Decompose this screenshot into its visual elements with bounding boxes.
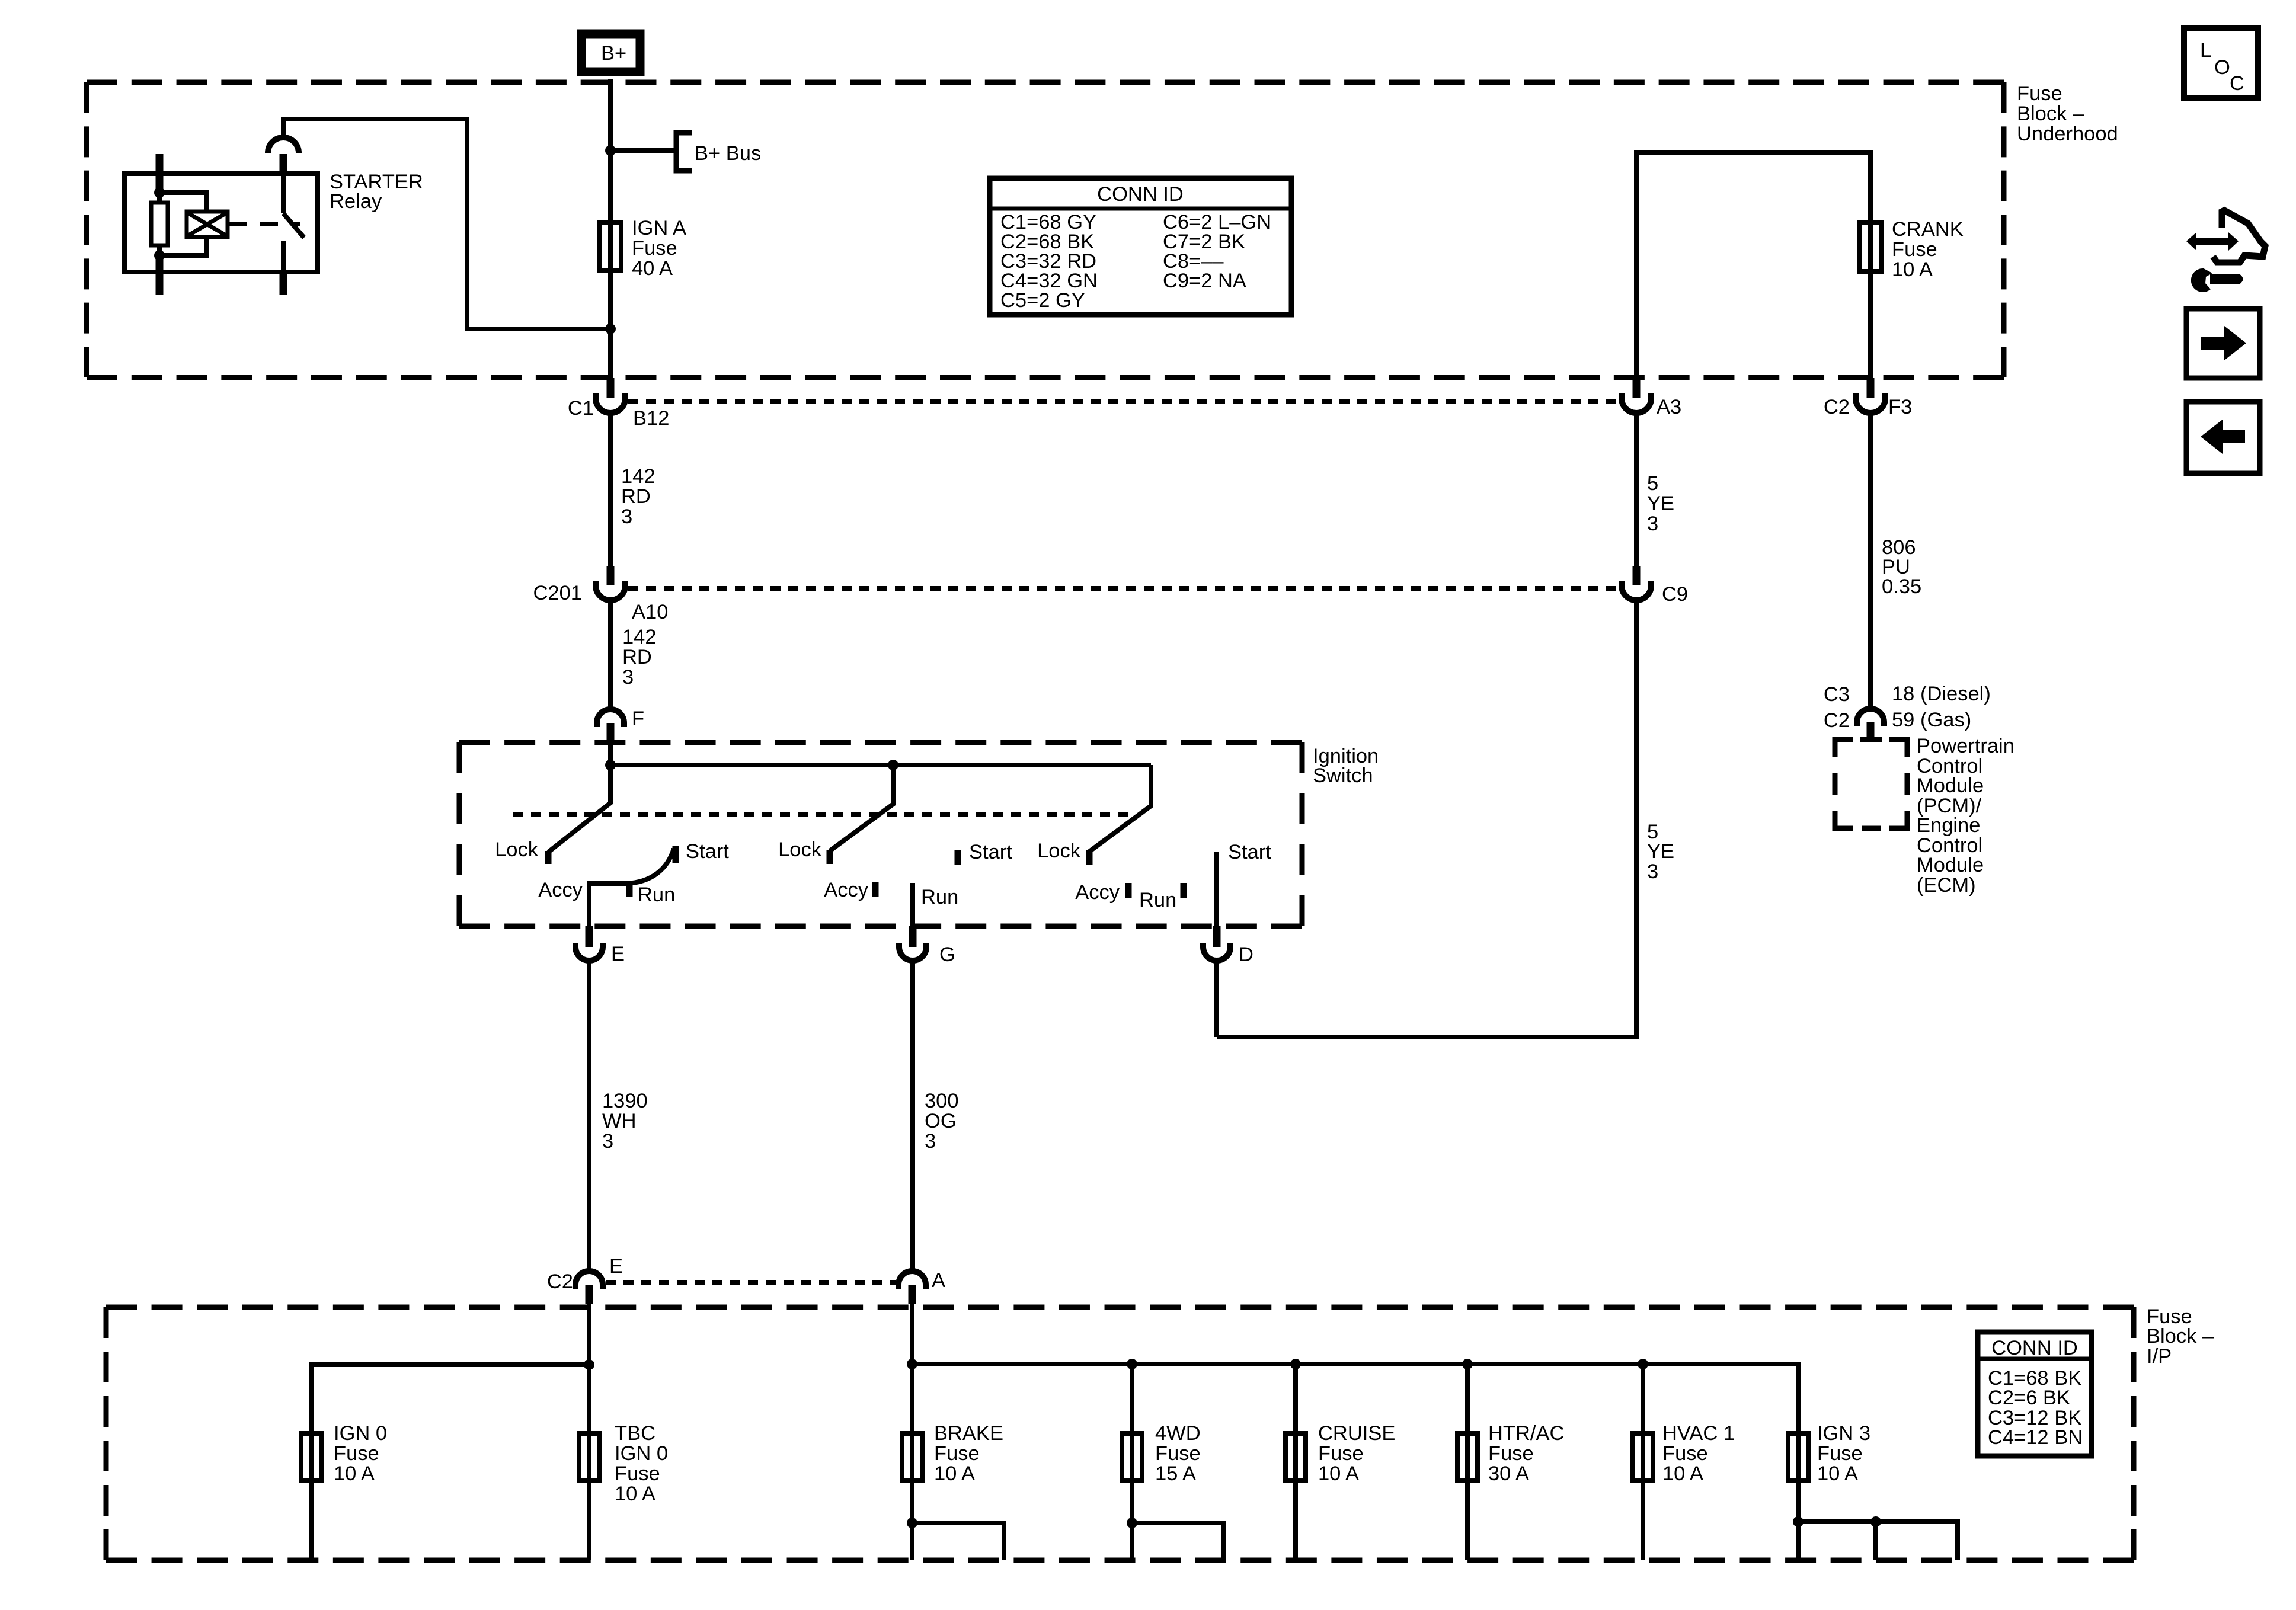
wire 4WD fuse out bbox=[1130, 1483, 1134, 1560]
svg-text:Run: Run bbox=[1139, 889, 1176, 911]
wire HVAC 1 fuse out bbox=[1641, 1483, 1645, 1560]
label CRANK Fuse 10 A bbox=[1892, 218, 1964, 281]
svg-text:CONN ID: CONN ID bbox=[1991, 1337, 2078, 1359]
svg-text:C2: C2 bbox=[1824, 709, 1850, 732]
wire 5 YE A3 to C9 bbox=[1634, 413, 1639, 566]
contact Lock 1 bbox=[545, 851, 552, 864]
contact Start 2 bbox=[955, 850, 961, 865]
svg-text:10 A: 10 A bbox=[934, 1462, 975, 1485]
svg-text:Fuse: Fuse bbox=[334, 1442, 379, 1465]
dotted gang link bbox=[513, 812, 1131, 817]
wire IGN 3 fuse out bbox=[1796, 1483, 1801, 1560]
node A distribution bbox=[907, 1359, 917, 1369]
wire CRUISE drop bbox=[1293, 1364, 1298, 1431]
B+ Bus bracket bbox=[676, 133, 692, 171]
svg-text:4WD: 4WD bbox=[1155, 1422, 1201, 1445]
label 300 OG 3 bbox=[925, 1090, 959, 1153]
svg-text:Relay: Relay bbox=[330, 190, 382, 213]
fuse BRAKE 10A bbox=[902, 1433, 922, 1480]
node bus 4WD bbox=[1127, 1359, 1137, 1369]
connector C2 pin E fuse block bbox=[575, 1271, 603, 1304]
wire IGN 0 fuse out bbox=[309, 1483, 314, 1560]
forward arrow icon bbox=[2186, 309, 2260, 378]
node relay feed junction bbox=[605, 324, 616, 334]
svg-text:C4=12 BN: C4=12 BN bbox=[1988, 1426, 2083, 1449]
contact Accy 3 bbox=[1125, 883, 1132, 898]
svg-text:Module: Module bbox=[1917, 774, 1984, 797]
relay switch pin top bbox=[280, 154, 287, 174]
svg-text:Powertrain: Powertrain bbox=[1917, 735, 2014, 757]
label 142 RD 3 lower bbox=[622, 626, 657, 689]
wire relay switch to main feed bbox=[283, 119, 610, 329]
relay switch contact lower bbox=[281, 241, 286, 272]
label IGN 3 Fuse 10 A bbox=[1817, 1422, 1870, 1485]
svg-text:Fuse: Fuse bbox=[1488, 1442, 1534, 1465]
svg-text:OG: OG bbox=[925, 1110, 957, 1132]
svg-text:L: L bbox=[2200, 39, 2211, 62]
svg-text:F3: F3 bbox=[1888, 396, 1912, 418]
svg-text:HTR/AC: HTR/AC bbox=[1488, 1422, 1564, 1445]
svg-text:C1: C1 bbox=[568, 397, 594, 420]
wire BRAKE fuse out bbox=[910, 1483, 914, 1560]
svg-text:Fuse: Fuse bbox=[2017, 82, 2062, 105]
label 806 PU 0.35 bbox=[1882, 536, 1921, 598]
fuse block IP dashed enclosure bbox=[106, 1305, 2134, 1310]
contact Run 1 bbox=[626, 884, 633, 897]
svg-text:Fuse: Fuse bbox=[1662, 1442, 1708, 1465]
svg-text:3: 3 bbox=[1647, 860, 1658, 883]
label IGN A Fuse 40 A bbox=[632, 217, 686, 280]
svg-text:3: 3 bbox=[621, 505, 632, 528]
svg-text:Start: Start bbox=[1228, 841, 1271, 863]
label Powertrain Control Module (PCM)/ Engine Control Module (ECM) bbox=[1917, 735, 2014, 897]
svg-text:YE: YE bbox=[1647, 492, 1674, 515]
wire 4WD stub bbox=[1132, 1523, 1223, 1560]
label 142 RD 3 upper bbox=[621, 465, 655, 528]
svg-text:CONN ID: CONN ID bbox=[1097, 183, 1184, 206]
label Ignition Switch bbox=[1313, 745, 1379, 787]
connector E ignition switch bbox=[575, 926, 603, 961]
wire to IGN 0 fuse bbox=[311, 1365, 589, 1431]
node 4WD stub bbox=[1127, 1518, 1137, 1528]
wire A column into fuse block bbox=[910, 1304, 914, 1431]
node switch pole 1 bbox=[605, 760, 616, 770]
wire B+ down to IGN A fuse bbox=[608, 79, 613, 220]
connector C9 bbox=[1622, 566, 1651, 600]
label IGN 0 Fuse 10 A bbox=[334, 1422, 387, 1485]
wire HVAC 1 drop bbox=[1641, 1364, 1645, 1431]
fuse HTR/AC 30A bbox=[1457, 1433, 1478, 1480]
node bus HTR/AC bbox=[1462, 1359, 1473, 1369]
svg-text:(ECM): (ECM) bbox=[1917, 874, 1976, 897]
wire 5 YE C9 down to D leg bbox=[1217, 600, 1636, 1037]
svg-text:Start: Start bbox=[969, 841, 1012, 863]
service vehicle icon bbox=[2186, 210, 2265, 292]
svg-text:C2: C2 bbox=[547, 1270, 573, 1293]
wire 1390 WH E to C2 bbox=[587, 961, 591, 1272]
svg-text:Fuse: Fuse bbox=[934, 1442, 980, 1465]
wire HTR/AC drop bbox=[1465, 1364, 1470, 1431]
svg-text:B+: B+ bbox=[601, 42, 626, 65]
wire 142 RD C1 to C201 bbox=[608, 413, 613, 566]
svg-text:TBC: TBC bbox=[615, 1422, 655, 1445]
connector C3 C2 PCM pins 18/59 bbox=[1857, 709, 1884, 742]
connector F ignition switch bbox=[597, 709, 624, 742]
svg-text:B12: B12 bbox=[633, 407, 669, 430]
wire Run leg switch 2 bbox=[910, 883, 915, 926]
label 5 YE 3 upper bbox=[1647, 472, 1674, 535]
svg-text:Start: Start bbox=[686, 840, 729, 863]
svg-text:HVAC 1: HVAC 1 bbox=[1662, 1422, 1735, 1445]
svg-text:RD: RD bbox=[622, 646, 652, 668]
svg-text:10 A: 10 A bbox=[615, 1483, 655, 1505]
wire D leg to corner bbox=[1214, 961, 1219, 1037]
svg-text:WH: WH bbox=[602, 1110, 636, 1132]
label STARTER Relay bbox=[330, 171, 423, 213]
svg-text:30 A: 30 A bbox=[1488, 1462, 1529, 1485]
svg-text:Module: Module bbox=[1917, 854, 1984, 876]
node coil bottom bbox=[154, 250, 165, 261]
svg-text:C2: C2 bbox=[1824, 396, 1850, 418]
label 4WD Fuse 15 A bbox=[1155, 1422, 1201, 1485]
relay switch contact upper bbox=[281, 174, 286, 213]
svg-text:Fuse: Fuse bbox=[1155, 1442, 1201, 1465]
relay coil pin top bbox=[156, 154, 164, 196]
blade curve to Start 1 bbox=[626, 849, 674, 884]
svg-text:Accy: Accy bbox=[1075, 881, 1120, 904]
connector C1 pin B12 bbox=[596, 378, 625, 413]
node B+ bus tap bbox=[605, 145, 616, 156]
wire through IGN A fuse bbox=[608, 220, 613, 378]
svg-text:40 A: 40 A bbox=[632, 257, 673, 280]
svg-text:RD: RD bbox=[621, 485, 651, 508]
LOC legend icon bbox=[2184, 28, 2258, 98]
node bus CRUISE bbox=[1290, 1359, 1301, 1369]
wire E column into fuse block bbox=[587, 1304, 591, 1431]
svg-text:1390: 1390 bbox=[602, 1090, 648, 1112]
resistor relay coil bbox=[157, 193, 162, 203]
svg-text:IGN 0: IGN 0 bbox=[334, 1422, 387, 1445]
svg-text:G: G bbox=[939, 943, 955, 966]
fuse 4WD 15A bbox=[1122, 1433, 1142, 1480]
wire 142 RD C201 to F bbox=[608, 600, 613, 710]
svg-text:Lock: Lock bbox=[495, 838, 539, 861]
PCM dashed box bbox=[1835, 740, 1907, 828]
svg-text:Fuse: Fuse bbox=[1892, 238, 1937, 261]
node bus HVAC 1 bbox=[1638, 1359, 1648, 1369]
svg-text:10 A: 10 A bbox=[334, 1462, 375, 1485]
node IGN 3 stub bbox=[1793, 1516, 1803, 1527]
svg-text:Engine: Engine bbox=[1917, 814, 1980, 837]
relay terminal arc bbox=[268, 137, 299, 153]
svg-text:Accy: Accy bbox=[824, 879, 869, 901]
svg-text:10 A: 10 A bbox=[1318, 1462, 1359, 1485]
svg-text:142: 142 bbox=[622, 626, 657, 648]
svg-text:Lock: Lock bbox=[778, 838, 822, 861]
contact Run 3 bbox=[1181, 883, 1187, 898]
wire Accy leg switch 1 bbox=[589, 884, 626, 926]
fuse block underhood dashed enclosure bbox=[87, 80, 2004, 85]
svg-text:5: 5 bbox=[1647, 472, 1658, 495]
wire ignition bus bbox=[912, 1364, 1798, 1431]
svg-text:Run: Run bbox=[921, 886, 958, 908]
svg-text:Block –: Block – bbox=[2147, 1325, 2214, 1347]
fuse CRUISE 10A bbox=[1285, 1433, 1306, 1480]
svg-text:C201: C201 bbox=[533, 582, 582, 604]
svg-text:YE: YE bbox=[1647, 840, 1674, 863]
contact Accy 2 bbox=[872, 882, 879, 897]
svg-text:BRAKE: BRAKE bbox=[934, 1422, 1003, 1445]
svg-text:O: O bbox=[2214, 56, 2230, 79]
wire Start leg switch 3 bbox=[1214, 852, 1219, 926]
switch pole 1 blade bbox=[548, 765, 610, 852]
svg-text:Accy: Accy bbox=[538, 879, 583, 901]
svg-text:C9=2 NA: C9=2 NA bbox=[1163, 270, 1246, 292]
wire ignition feed bus bbox=[610, 742, 1151, 765]
svg-text:IGN A: IGN A bbox=[632, 217, 686, 239]
svg-text:A: A bbox=[932, 1269, 945, 1292]
fuse IGN 0 10A bbox=[301, 1433, 321, 1480]
svg-text:F: F bbox=[632, 708, 644, 730]
fuse TBC IGN 0 10A bbox=[579, 1433, 599, 1480]
wire IGN 3 stub bbox=[1798, 1522, 1958, 1560]
wire 4WD drop bbox=[1130, 1364, 1134, 1431]
svg-text:C5=2 GY: C5=2 GY bbox=[1000, 289, 1085, 312]
wire CRANK fuse to C2 F3 bbox=[1868, 274, 1873, 378]
label Fuse Block - I/P bbox=[2147, 1305, 2214, 1368]
node coil top bbox=[154, 187, 165, 198]
svg-text:C2=6 BK: C2=6 BK bbox=[1988, 1387, 2070, 1409]
connector C2 F3 bbox=[1856, 378, 1885, 413]
switch pole 3 blade bbox=[1089, 765, 1151, 852]
dotted harness line C201 to C9 bbox=[628, 586, 1620, 591]
dashed mechanical link diode to switch bbox=[229, 222, 300, 226]
svg-text:B+ Bus: B+ Bus bbox=[695, 142, 761, 165]
node IGN 3 stub mid bbox=[1870, 1516, 1881, 1527]
svg-text:D: D bbox=[1239, 943, 1253, 966]
label 5 YE 3 lower bbox=[1647, 821, 1674, 883]
contact Lock 3 bbox=[1086, 850, 1093, 865]
svg-text:Underhood: Underhood bbox=[2017, 123, 2118, 145]
wire IGN 3 stub mid drop bbox=[1873, 1522, 1878, 1560]
svg-text:C9: C9 bbox=[1662, 583, 1688, 606]
svg-text:10 A: 10 A bbox=[1892, 258, 1933, 281]
label HVAC 1 Fuse 10 A bbox=[1662, 1422, 1735, 1485]
contact Lock 2 bbox=[827, 850, 833, 864]
svg-text:CRANK: CRANK bbox=[1892, 218, 1964, 241]
wire 806 PU to PCM bbox=[1868, 413, 1873, 709]
svg-text:Fuse: Fuse bbox=[632, 237, 677, 260]
back arrow icon bbox=[2186, 402, 2260, 473]
fuse HVAC 1 10A bbox=[1633, 1433, 1653, 1480]
svg-text:CRUISE: CRUISE bbox=[1318, 1422, 1395, 1445]
connector G ignition switch bbox=[899, 926, 926, 961]
svg-text:3: 3 bbox=[602, 1130, 613, 1153]
svg-text:Lock: Lock bbox=[1037, 840, 1081, 862]
connector A fuse block bbox=[898, 1271, 926, 1304]
wire A3 riser and crank feed bbox=[1636, 152, 1870, 378]
svg-text:A10: A10 bbox=[632, 601, 668, 623]
svg-text:E: E bbox=[611, 943, 625, 965]
svg-text:3: 3 bbox=[622, 666, 634, 689]
wire 300 OG G to A bbox=[910, 961, 915, 1272]
svg-text:18 (Diesel): 18 (Diesel) bbox=[1892, 683, 1991, 705]
svg-text:C: C bbox=[2230, 72, 2244, 95]
label 1390 WH 3 bbox=[602, 1090, 648, 1153]
svg-text:3: 3 bbox=[925, 1130, 936, 1153]
svg-text:142: 142 bbox=[621, 465, 655, 488]
svg-text:Run: Run bbox=[638, 884, 675, 906]
svg-text:C3: C3 bbox=[1824, 683, 1850, 706]
wire TBC fuse out bbox=[587, 1483, 591, 1560]
ignition switch dashed enclosure bbox=[459, 740, 1302, 745]
diode suppression element bbox=[187, 212, 228, 237]
label TBC IGN 0 Fuse 10 A bbox=[615, 1422, 668, 1505]
label CRUISE Fuse 10 A bbox=[1318, 1422, 1395, 1485]
connector C201 pin A10 bbox=[596, 566, 625, 600]
connector A3 bbox=[1622, 378, 1651, 413]
switch pole 2 blade bbox=[830, 765, 893, 851]
label HTR/AC Fuse 30 A bbox=[1488, 1422, 1564, 1485]
fuse IGN A 40A bbox=[600, 223, 621, 271]
dotted harness line E to A bbox=[606, 1280, 896, 1285]
svg-text:Fuse: Fuse bbox=[1817, 1442, 1863, 1465]
contact Start 1 bbox=[673, 846, 679, 863]
starter relay box bbox=[124, 174, 318, 272]
label BRAKE Fuse 10 A bbox=[934, 1422, 1003, 1485]
svg-text:59 (Gas): 59 (Gas) bbox=[1892, 709, 1971, 731]
wire to B+ Bus bbox=[610, 148, 676, 153]
node E distribution bbox=[584, 1359, 594, 1370]
svg-text:0.35: 0.35 bbox=[1882, 575, 1921, 598]
svg-text:I/P: I/P bbox=[2147, 1345, 2172, 1368]
fuse CRANK 10A bbox=[1859, 223, 1881, 271]
svg-text:Fuse: Fuse bbox=[1318, 1442, 1364, 1465]
svg-text:Fuse: Fuse bbox=[615, 1462, 660, 1485]
fuse IGN 3 10A bbox=[1788, 1433, 1808, 1480]
svg-text:IGN 0: IGN 0 bbox=[615, 1442, 668, 1465]
svg-text:E: E bbox=[609, 1255, 623, 1278]
svg-text:Switch: Switch bbox=[1313, 764, 1373, 787]
svg-text:10 A: 10 A bbox=[1662, 1462, 1703, 1485]
connector D ignition switch bbox=[1203, 926, 1230, 961]
svg-text:300: 300 bbox=[925, 1090, 959, 1112]
svg-text:15 A: 15 A bbox=[1155, 1462, 1196, 1485]
wire BRAKE stub bbox=[912, 1523, 1004, 1560]
svg-text:IGN 3: IGN 3 bbox=[1817, 1422, 1870, 1445]
svg-text:A3: A3 bbox=[1657, 396, 1681, 418]
wire CRUISE fuse out bbox=[1293, 1483, 1298, 1560]
CONN ID table underhood bbox=[990, 178, 1291, 315]
CONN ID table IP bbox=[1978, 1332, 2092, 1456]
label Fuse Block - Underhood bbox=[2017, 82, 2118, 145]
svg-text:3: 3 bbox=[1647, 513, 1658, 535]
svg-text:Block –: Block – bbox=[2017, 103, 2084, 125]
node switch pole 2 bbox=[888, 760, 898, 770]
node BRAKE stub bbox=[907, 1518, 917, 1528]
relay switch pin bottom bbox=[280, 272, 287, 295]
wire diode branch bbox=[159, 193, 207, 255]
B+ battery feed symbol bbox=[581, 34, 640, 72]
relay coil pin bottom bbox=[156, 253, 164, 295]
dotted harness line C1 to A3 bbox=[628, 399, 1620, 404]
wire HTR/AC fuse out bbox=[1465, 1483, 1470, 1560]
svg-text:10 A: 10 A bbox=[1817, 1462, 1858, 1485]
relay switch blade bbox=[283, 213, 304, 238]
